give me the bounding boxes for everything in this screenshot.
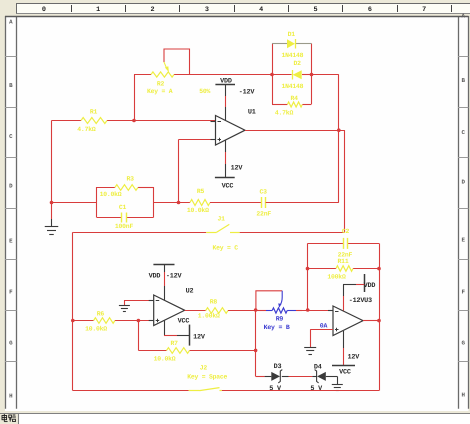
svg-text:R3: R3 — [127, 176, 135, 183]
wire: diode network to U1 output junction — [312, 75, 339, 131]
svg-text:10.0kΩ: 10.0kΩ — [85, 326, 107, 333]
op-amp U3 — [333, 306, 363, 336]
value R4 4.7kOhm — [275, 110, 294, 117]
svg-text:C2: C2 — [342, 228, 350, 235]
svg-text:C1: C1 — [119, 204, 127, 211]
svg-text:5 V: 5 V — [269, 385, 282, 393]
svg-text:J2: J2 — [200, 365, 208, 372]
wire: U3 non-inverting input to ground — [310, 330, 333, 348]
label D4 — [314, 363, 322, 371]
svg-text:VDD: VDD — [364, 282, 376, 290]
svg-text:4.7kΩ: 4.7kΩ — [77, 126, 96, 133]
wire: vertical to R7 and zeners — [255, 310, 257, 376]
wire: R11 branch — [308, 268, 380, 270]
capacitor C3 — [262, 197, 266, 208]
svg-text:VCC: VCC — [178, 318, 190, 326]
svg-text:7: 7 — [422, 6, 426, 14]
svg-text:100kΩ: 100kΩ — [327, 274, 346, 281]
svg-text:R1: R1 — [90, 109, 98, 116]
zener diode D3 — [265, 370, 289, 383]
wire: U2 inverting input to ground — [124, 300, 153, 305]
node: U1 output junction — [337, 128, 341, 132]
label 12V of U1 VCC — [231, 165, 244, 173]
node: R7 to zener junction — [254, 349, 258, 353]
capacitor C1 — [122, 213, 127, 223]
svg-text:R7: R7 — [171, 340, 179, 347]
label R7 — [171, 340, 179, 347]
svg-text:Key = Space: Key = Space — [187, 374, 227, 381]
resistor R4 — [287, 102, 302, 107]
wire: U2 output — [185, 310, 206, 312]
svg-text:50%: 50% — [199, 88, 210, 95]
label -12V of U1 VDD — [239, 89, 256, 97]
label 50% — [199, 88, 210, 95]
wire: riser to U1 + input — [179, 140, 211, 203]
label Key = A — [147, 88, 173, 95]
svg-text:12V: 12V — [193, 334, 206, 342]
wire: R2 branch horizontal — [134, 74, 272, 76]
value D2 1N4148 — [281, 83, 303, 90]
wire: R4 branch — [272, 104, 312, 106]
value C2 22nF — [338, 252, 353, 259]
svg-text:100nF: 100nF — [115, 223, 134, 230]
wire: mid line left segment — [52, 202, 97, 204]
label R8 — [210, 299, 218, 306]
wire: R3/C1 box right vertical — [153, 187, 155, 218]
wire: mid line to + node — [153, 202, 190, 204]
value D3 5 V — [269, 385, 282, 393]
label 12V of U2 VCC — [193, 334, 206, 342]
wire: R9 wiper loop — [256, 291, 282, 310]
svg-text:10.0kΩ: 10.0kΩ — [100, 191, 122, 198]
wire: left rail of U1 inverting network — [51, 121, 53, 203]
ground after zeners — [332, 385, 343, 391]
label D3 — [274, 363, 282, 371]
svg-text:3: 3 — [205, 6, 209, 14]
wire: left rail down to bottom loop — [73, 232, 74, 390]
wire: C1 branch — [97, 217, 154, 219]
switch J2 — [189, 388, 222, 391]
wire: U1 inverting input line — [52, 120, 216, 122]
potentiometer R2 body — [151, 72, 174, 77]
resistor R6 — [94, 318, 115, 324]
wire: R2 wiper loop — [164, 49, 190, 75]
wire: J1 line left — [74, 232, 207, 234]
value D4 5 V — [310, 385, 323, 393]
label J1 — [217, 216, 225, 223]
svg-text:R8: R8 — [210, 299, 218, 306]
svg-text:4: 4 — [259, 6, 263, 14]
label R5 — [197, 188, 205, 195]
svg-text:-12V: -12V — [349, 297, 366, 305]
potentiometer R2 wiper arrow — [164, 62, 169, 73]
wire: bottom rail left — [73, 390, 189, 392]
node: R6 tap on left rail — [71, 319, 75, 323]
label R2 — [157, 81, 165, 88]
label C2 — [342, 228, 350, 235]
node: diode network right — [310, 73, 314, 77]
node: R7 feedback tap — [137, 319, 141, 323]
left border letter column — [5, 16, 17, 409]
wire: R9 to U3 inverting input — [302, 310, 333, 312]
svg-text:6: 6 — [368, 6, 372, 14]
wire: R5 to C3 — [210, 202, 262, 204]
svg-text:Key = B: Key = B — [264, 324, 290, 331]
ground at U3 non-inverting input — [304, 348, 316, 355]
value R3 10.0kOhm — [100, 191, 122, 198]
node: ground junction of Wien divider — [50, 201, 54, 205]
value C3 22nF — [256, 211, 271, 218]
node: R11 right junction — [377, 267, 381, 271]
wire: output drop to switch J1 — [344, 130, 346, 232]
node: C2/R11 left leg joins — [306, 308, 310, 312]
svg-text:1: 1 — [96, 6, 100, 14]
svg-text:R5: R5 — [197, 188, 205, 195]
resistor R3 — [115, 185, 138, 191]
ground of Wien divider — [45, 203, 59, 235]
wire: J1 line right — [240, 232, 345, 234]
label 0A probe — [320, 323, 328, 330]
svg-text:C3: C3 — [260, 189, 268, 196]
resistor R11 — [336, 266, 353, 272]
svg-text:U1: U1 — [248, 109, 256, 117]
svg-text:U2: U2 — [186, 288, 194, 296]
power VDD of U1 — [215, 78, 235, 121]
power VDD of U3 (rotated) — [343, 274, 375, 311]
svg-text:U3: U3 — [364, 297, 372, 305]
wire: U1 output — [245, 130, 345, 132]
label -12V of U3 VDD — [349, 297, 366, 305]
resistor R1 — [81, 118, 107, 124]
power VCC of U1 — [215, 140, 235, 191]
wire: R3 branch — [97, 187, 154, 189]
svg-text:VCC: VCC — [339, 369, 351, 377]
label R11 — [338, 258, 349, 265]
label R3 — [127, 176, 135, 183]
wire: R8 to node — [228, 310, 256, 312]
svg-text:D4: D4 — [314, 363, 322, 371]
wire: D1 branch — [272, 43, 312, 45]
power VCC of U2 — [164, 318, 190, 346]
svg-text:VCC: VCC — [222, 183, 234, 191]
value R8 1.00kOhm — [198, 313, 220, 320]
sheet top border — [5, 16, 469, 18]
svg-text:-12V: -12V — [239, 89, 256, 97]
switch J1 — [206, 224, 240, 232]
svg-text:1N4148: 1N4148 — [281, 52, 303, 59]
svg-text:5: 5 — [314, 6, 318, 14]
wire: zener branch lead — [256, 376, 313, 378]
resistor R5 — [190, 200, 210, 206]
label U3 — [364, 297, 372, 305]
value R11 100kOhm — [327, 274, 346, 281]
wire: bottom rail right — [222, 390, 379, 392]
svg-text:Key = A: Key = A — [147, 88, 173, 95]
label C1 — [119, 204, 127, 211]
label 12V of U3 VCC — [347, 354, 360, 362]
value R7 10.0kOhm — [154, 356, 176, 363]
resistor R7 — [167, 348, 190, 354]
node: R8/R9/R7/zener node — [254, 308, 258, 312]
svg-text:VDD: VDD — [149, 273, 161, 281]
wire: R3/C1 box left vertical — [96, 187, 98, 218]
wire: D4 to ground — [334, 376, 338, 384]
wire: diode network right vertical — [311, 44, 313, 105]
svg-text:22nF: 22nF — [256, 211, 271, 218]
svg-text:5 V: 5 V — [310, 385, 323, 393]
svg-text:R6: R6 — [97, 311, 105, 318]
wire: C3 to feedback drop — [266, 202, 339, 204]
svg-text:4.7kΩ: 4.7kΩ — [275, 110, 294, 117]
svg-text:10.0kΩ: 10.0kΩ — [154, 356, 176, 363]
svg-text:D1: D1 — [288, 31, 296, 38]
svg-text:1N4148: 1N4148 — [281, 83, 303, 90]
svg-text:J1: J1 — [217, 216, 225, 223]
wire: D2 branch — [272, 74, 312, 76]
diode D1 — [287, 39, 296, 49]
wire: C2 branch — [308, 243, 380, 245]
label Key = Space — [187, 374, 227, 381]
value R6 10.0kOhm — [85, 326, 107, 333]
wire: feedback drop to C3 line — [338, 130, 340, 202]
svg-text:-12V: -12V — [166, 273, 183, 281]
value R5 10.0kOhm — [187, 207, 209, 214]
wire: R6 input line — [73, 320, 154, 322]
value D1 1N4148 — [281, 52, 303, 59]
wire: U3 output — [363, 320, 379, 322]
wire: diode network left vertical — [272, 44, 274, 105]
label R1 — [90, 109, 98, 116]
op-amp U2 — [149, 295, 185, 326]
label J2 — [200, 365, 208, 372]
power VCC of U3 — [332, 331, 355, 377]
label U2 — [186, 288, 194, 296]
svg-text:R2: R2 — [157, 81, 165, 88]
svg-text:Key = C: Key = C — [212, 244, 238, 251]
value R1 4.7kOhm — [77, 126, 96, 133]
diode D2 — [293, 70, 302, 80]
svg-text:R11: R11 — [338, 258, 349, 265]
resistor R8 — [206, 308, 228, 314]
zener diode D4 — [312, 370, 333, 383]
wire: C2/R11 box right vertical — [379, 243, 381, 390]
label U1 — [248, 109, 256, 117]
label Key = C — [212, 244, 238, 251]
top ruler strip — [16, 3, 470, 14]
label D1 — [288, 31, 296, 38]
capacitor C2 — [344, 238, 348, 249]
label -12V of U2 VDD — [166, 273, 183, 281]
label C3 — [260, 189, 268, 196]
potentiometer R9 (blue) — [256, 291, 302, 313]
wire: R7 feedback line — [138, 321, 255, 351]
node: junction R1/R2 to U1 inverting input — [132, 119, 136, 123]
svg-text:12V: 12V — [347, 354, 360, 362]
value C1 100nF — [115, 223, 134, 230]
bottom tab bar — [0, 411, 470, 424]
label R6 — [97, 311, 105, 318]
svg-text:2: 2 — [151, 6, 155, 14]
svg-text:D3: D3 — [274, 363, 282, 371]
ground at U2 inverting input — [119, 306, 130, 312]
svg-text:10.0kΩ: 10.0kΩ — [187, 207, 209, 214]
label R4 — [291, 95, 299, 102]
label Key = B — [264, 324, 290, 331]
node: U3 output junction — [377, 319, 381, 323]
label R9 — [276, 316, 284, 323]
svg-text:R9: R9 — [276, 316, 284, 323]
wire: riser to potentiometer R2 — [134, 75, 136, 121]
svg-text:0A: 0A — [320, 323, 328, 330]
power VDD of U2 — [149, 264, 175, 300]
label D2 — [293, 60, 301, 67]
svg-text:0: 0 — [42, 6, 46, 14]
svg-text:1.00kΩ: 1.00kΩ — [198, 313, 220, 320]
wire: C2/R11 box left vertical — [307, 243, 309, 310]
svg-text:VDD: VDD — [220, 78, 232, 86]
svg-text:12V: 12V — [231, 165, 244, 173]
svg-text:D2: D2 — [293, 60, 301, 67]
right border letter column — [458, 13, 469, 409]
node: U1 non-inverting node — [177, 201, 181, 205]
node: diode network left — [270, 73, 274, 77]
op-amp U1 — [211, 116, 246, 146]
node: R11 left junction — [306, 267, 310, 271]
svg-text:R4: R4 — [291, 95, 299, 102]
